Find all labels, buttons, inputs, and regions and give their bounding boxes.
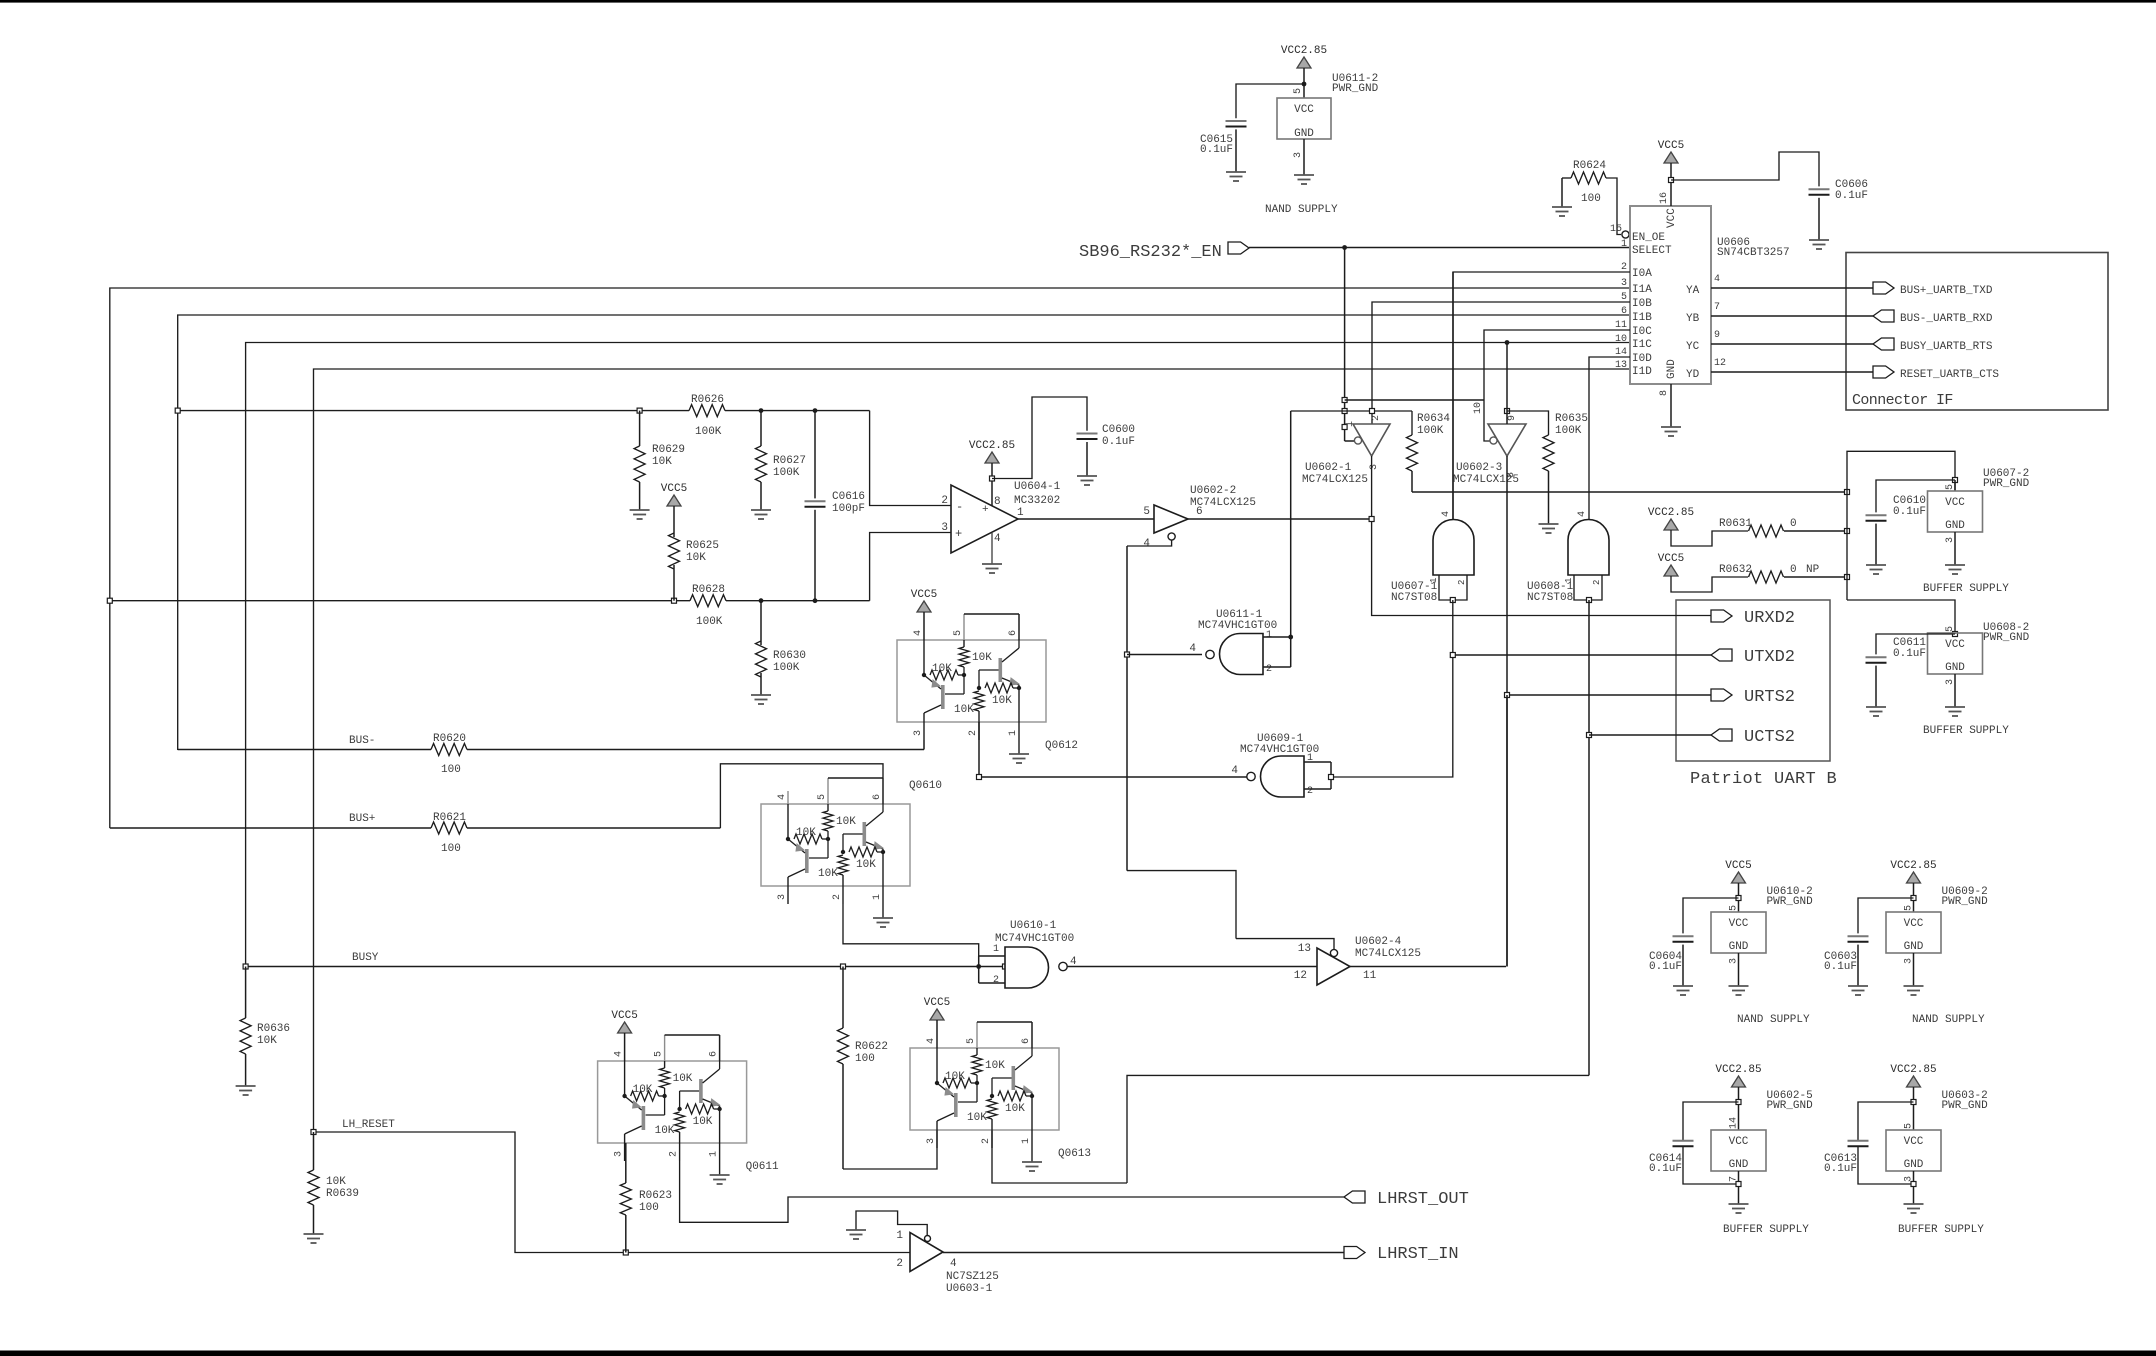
svg-text:BUSY_UARTB_RTS: BUSY_UARTB_RTS [1900, 341, 1993, 353]
resistor R0636 [240, 967, 290, 1087]
wire U0611-1 input [1127, 654, 1202, 656]
svg-text:2: 2 [1266, 664, 1272, 675]
wire op-amp pin2 [870, 411, 951, 506]
junction square Q0612 pin2 [977, 775, 982, 780]
svg-text:U0602-1: U0602-1 [1305, 462, 1352, 474]
label U0609-1 [1240, 733, 1319, 756]
connector URXD2 [1711, 609, 1795, 628]
svg-text:GND: GND [1729, 1159, 1749, 1171]
svg-text:3: 3 [1621, 278, 1627, 289]
connector BUS-_UARTB_RXD [1873, 310, 1993, 325]
wire U0608-1 input bracket [1574, 575, 1602, 600]
svg-text:MC74LCX125: MC74LCX125 [1190, 497, 1256, 509]
transistor pair Q0612 (with internal 10K resistors) [897, 589, 1078, 763]
wire LH_RESET [314, 1132, 911, 1253]
svg-text:11: 11 [1363, 970, 1377, 982]
power VCC5 (U0606) [1658, 140, 1684, 163]
svg-text:R0632: R0632 [1719, 564, 1752, 576]
bubble U0610-1 [1059, 962, 1067, 970]
svg-text:10K: 10K [967, 1112, 987, 1124]
label U0611-2 [1332, 73, 1379, 95]
IC U0606 right pin numbers [1714, 274, 1726, 369]
svg-text:4: 4 [926, 1038, 937, 1044]
wire BUSY [246, 966, 1005, 968]
resistor R0625 [669, 506, 720, 601]
svg-text:3: 3 [614, 1151, 625, 1157]
svg-text:RESET_UARTB_CTS: RESET_UARTB_CTS [1900, 369, 1999, 381]
svg-text:VCC: VCC [1904, 918, 1924, 930]
NAND gate U0610-1 [993, 944, 1077, 988]
svg-text:0.1uF: 0.1uF [1893, 506, 1926, 518]
junction square U0607-2 pin5 [1953, 478, 1958, 483]
junction square U0602-3 pin9 [1505, 409, 1510, 414]
svg-text:R0630: R0630 [773, 650, 806, 662]
svg-text:12: 12 [1294, 970, 1307, 982]
wire U0602-3 pin9/out vertical [1506, 343, 1508, 967]
box Patriot UART B [1676, 600, 1830, 761]
junction square R0623 bottom [623, 1250, 628, 1255]
wire BUS- to Q0612 pin3 [923, 740, 925, 750]
svg-text:100: 100 [855, 1053, 875, 1065]
svg-text:GND: GND [1294, 128, 1314, 140]
svg-text:PWR_GND: PWR_GND [1942, 896, 1989, 908]
wire SELECT [1249, 247, 1630, 249]
svg-text:NP: NP [1806, 564, 1820, 576]
connector LHRST_IN [1344, 1245, 1459, 1264]
svg-text:0.1uF: 0.1uF [1649, 961, 1682, 973]
svg-text:0.1uF: 0.1uF [1649, 1163, 1682, 1175]
svg-text:10K: 10K [796, 827, 816, 839]
svg-text:NC7ST08: NC7ST08 [1527, 592, 1573, 604]
svg-text:10K: 10K [673, 1073, 693, 1085]
svg-text:100: 100 [639, 1202, 659, 1214]
svg-text:VCC5: VCC5 [911, 589, 937, 601]
svg-text:5: 5 [966, 1038, 977, 1044]
svg-text:5: 5 [1904, 1123, 1915, 1129]
wire URTS2 [1507, 694, 1711, 696]
junction square UTXD2 tap [1450, 653, 1455, 658]
power VCC5 (R0625) [661, 483, 687, 506]
IC U0606 pin16 number [1659, 192, 1670, 204]
svg-text:I0A: I0A [1632, 268, 1652, 280]
wire U0611-1 out bracket [1263, 637, 1291, 667]
label NAND SUPPLY top [1265, 204, 1338, 216]
svg-text:100K: 100K [1555, 425, 1582, 437]
svg-text:VCC2.85: VCC2.85 [1890, 860, 1936, 872]
svg-text:VCC5: VCC5 [611, 1010, 637, 1022]
junction square buffer-supply [1845, 490, 1850, 495]
resistor R0634 [1407, 411, 1451, 492]
svg-text:10K: 10K [932, 663, 952, 675]
svg-text:R0621: R0621 [433, 812, 466, 824]
svg-text:1: 1 [709, 1151, 720, 1157]
svg-text:0.1uF: 0.1uF [1824, 1163, 1857, 1175]
supply block U0609-2 with C0603 capacitor + VCC2.85 [1824, 860, 1988, 1026]
svg-text:2: 2 [968, 730, 979, 736]
wire enable to U0602-1 bubble [1345, 440, 1354, 442]
wire R0631 left [1671, 530, 1748, 546]
svg-text:6: 6 [872, 794, 883, 800]
svg-text:10: 10 [1473, 402, 1484, 414]
ground R0635 [1539, 524, 1559, 533]
wire node R0628 row [110, 600, 870, 602]
border bar top [0, 0, 2156, 3]
svg-text:BUSY: BUSY [352, 952, 379, 964]
label U0611-1 [1198, 609, 1277, 632]
wire node R0626 row [178, 410, 870, 412]
svg-text:5: 5 [1729, 905, 1740, 911]
svg-text:Patriot UART B: Patriot UART B [1690, 770, 1837, 789]
wire VCC2.85 to op-amp pin8 [991, 463, 993, 506]
supply block U0607-2 with C0610 capacitor [1866, 468, 2030, 595]
svg-text:GND: GND [1904, 1159, 1924, 1171]
svg-text:VCC: VCC [1945, 639, 1965, 651]
svg-text:BUFFER SUPPLY: BUFFER SUPPLY [1923, 583, 2009, 595]
svg-text:R0628: R0628 [692, 584, 725, 596]
svg-text:3: 3 [941, 522, 948, 534]
svg-text:4: 4 [950, 1258, 957, 1270]
svg-text:VCC: VCC [1729, 1136, 1749, 1148]
net label SB96_RS232*_EN [1079, 243, 1222, 262]
bubble U0602-4 en [1330, 949, 1337, 956]
wire C0600 feed [992, 397, 1087, 479]
resistor R0620 [431, 733, 467, 776]
ground R0630 [751, 695, 771, 704]
wire Q0611 pin2 to LHRST_OUT [680, 1161, 1344, 1222]
svg-text:I1C: I1C [1632, 339, 1652, 351]
svg-text:+: + [955, 527, 962, 541]
label Patriot UART B [1690, 770, 1837, 789]
label U0606 [1717, 237, 1790, 259]
svg-text:U0602-4: U0602-4 [1355, 936, 1402, 948]
svg-text:10K: 10K [985, 1060, 1005, 1072]
svg-text:I1D: I1D [1632, 366, 1652, 378]
bubble U0602-2 enable [1168, 533, 1175, 540]
junction square R0631 [1845, 529, 1850, 534]
IC U0606 pin8 number [1659, 390, 1670, 396]
label U0602-2 [1190, 485, 1256, 509]
svg-text:I0C: I0C [1632, 326, 1652, 338]
svg-text:1: 1 [1008, 730, 1019, 736]
power VCC2.85 (R0631) [1648, 507, 1694, 530]
buffer U0602-1 [1345, 415, 1390, 470]
svg-text:4: 4 [1714, 274, 1720, 285]
connector BUS+_UARTB_TXD [1873, 282, 1993, 297]
resistor R0623 [620, 1143, 672, 1253]
svg-text:10K: 10K [633, 1084, 653, 1096]
resistor R0626 [689, 394, 725, 438]
svg-text:YC: YC [1686, 341, 1700, 353]
wire net I1B (left loop) [178, 315, 1630, 750]
svg-text:100K: 100K [696, 616, 723, 628]
svg-text:C0600: C0600 [1102, 424, 1135, 436]
svg-text:VCC2.85: VCC2.85 [969, 440, 1015, 452]
svg-text:12: 12 [1714, 358, 1726, 369]
svg-text:5: 5 [1945, 626, 1956, 632]
svg-text:13: 13 [1298, 943, 1311, 955]
svg-text:Connector IF: Connector IF [1852, 392, 1953, 409]
svg-text:BUFFER SUPPLY: BUFFER SUPPLY [1898, 1224, 1984, 1236]
junction square R0629 node [637, 408, 642, 413]
wire UCTS2 chain row [1127, 1075, 1589, 1183]
svg-text:UTXD2: UTXD2 [1744, 648, 1795, 667]
svg-text:1: 1 [872, 894, 883, 900]
label U0608-1 [1527, 581, 1574, 604]
capacitor C0615 [1200, 121, 1247, 172]
wire UCTS2 [1589, 734, 1711, 736]
junction square LH_RESET left [311, 1130, 316, 1135]
svg-text:YA: YA [1686, 285, 1700, 297]
net label BUSY [352, 952, 379, 964]
svg-text:MC74LCX125: MC74LCX125 [1453, 474, 1519, 486]
wire U0602-4 out [1350, 966, 1506, 968]
svg-text:2: 2 [669, 1151, 680, 1157]
label U0602-4 [1355, 936, 1421, 960]
svg-text:MC74VHC1GT00: MC74VHC1GT00 [1240, 744, 1319, 756]
svg-text:1: 1 [896, 1230, 903, 1242]
svg-text:UCTS2: UCTS2 [1744, 728, 1795, 747]
svg-text:Q0611: Q0611 [746, 1161, 779, 1173]
svg-text:MC33202: MC33202 [1014, 495, 1060, 507]
svg-text:VCC: VCC [1294, 104, 1314, 116]
svg-text:10K: 10K [836, 816, 856, 828]
capacitor C0616 [805, 411, 866, 601]
ground R0624 [1552, 207, 1572, 216]
svg-text:NAND SUPPLY: NAND SUPPLY [1265, 204, 1338, 216]
wire BUS+ to Q0610 pin6 [720, 764, 883, 828]
junction square R0632 [1845, 575, 1850, 580]
svg-text:BUS-: BUS- [349, 735, 375, 747]
svg-text:0: 0 [1790, 564, 1797, 576]
junction dot C0616 node [813, 408, 818, 413]
bubble U0606 EN_OE [1622, 231, 1629, 238]
wire en branch A [1345, 399, 1484, 401]
svg-text:BUS-_UARTB_RXD: BUS-_UARTB_RXD [1900, 313, 1993, 325]
svg-text:1: 1 [993, 944, 999, 955]
svg-text:6: 6 [1008, 630, 1019, 636]
wire R0632 left [1671, 576, 1748, 592]
wire UTXD2 net [1331, 600, 1711, 777]
power VCC2.85 (U0611-2) [1281, 45, 1327, 68]
ground C0600 [1077, 476, 1097, 485]
svg-text:9: 9 [1507, 415, 1518, 421]
ground R0636 [236, 1086, 256, 1095]
wire U0610-1 in bracket [979, 956, 1005, 983]
wire U0609-1 out bracket [1304, 762, 1331, 789]
junction square en C [1342, 425, 1347, 430]
IC U0606 pin texts [1632, 208, 1700, 381]
svg-text:SN74CBT3257: SN74CBT3257 [1717, 247, 1790, 259]
transistor pair Q0611 (with internal 10K resistors) [598, 1010, 779, 1184]
junction dot R0627 node [759, 408, 764, 413]
block U0611-2 PWR_GND [1277, 88, 1331, 158]
svg-text:R0620: R0620 [433, 733, 466, 745]
supply block U0610-2 with C0604 capacitor + VCC5 [1649, 860, 1813, 1026]
bubble U0611-1 [1206, 650, 1214, 658]
svg-text:NAND SUPPLY: NAND SUPPLY [1737, 1014, 1810, 1026]
junction dot I1C tap [1505, 340, 1510, 345]
ground U0606 [1661, 427, 1681, 436]
svg-text:BUS+_UARTB_TXD: BUS+_UARTB_TXD [1900, 285, 1993, 297]
resistor R0639 [308, 1132, 359, 1234]
svg-text:PWR_GND: PWR_GND [1983, 632, 2030, 644]
svg-text:VCC2.85: VCC2.85 [1715, 1064, 1761, 1076]
svg-text:U0610-1: U0610-1 [1010, 920, 1057, 932]
svg-text:10K: 10K [818, 868, 838, 880]
svg-text:MC74VHC1GT00: MC74VHC1GT00 [1198, 620, 1277, 632]
svg-text:LH_RESET: LH_RESET [342, 1119, 395, 1131]
svg-text:100: 100 [441, 764, 461, 776]
wire VCC2.85 to U0611-2 [1303, 68, 1305, 98]
wire U0602-4 enable [1236, 939, 1334, 949]
transistor pair Q0610 (with internal 10K resistors) [761, 778, 942, 927]
svg-text:PWR_GND: PWR_GND [1767, 1100, 1814, 1112]
connector LHRST_OUT [1344, 1190, 1469, 1209]
svg-text:2: 2 [832, 894, 843, 900]
junction dot R0630 node [759, 598, 764, 603]
svg-text:4: 4 [614, 1051, 625, 1057]
svg-text:VCC5: VCC5 [1658, 553, 1684, 565]
svg-text:R0625: R0625 [686, 540, 719, 552]
svg-text:GND: GND [1945, 662, 1965, 674]
label U0603-1 [946, 1271, 999, 1295]
svg-text:1: 1 [1021, 1138, 1032, 1144]
svg-text:2: 2 [941, 495, 948, 507]
resistor R0635 [1507, 411, 1588, 524]
svg-text:BUFFER SUPPLY: BUFFER SUPPLY [1923, 725, 2009, 737]
resistor R0624 [1562, 160, 1621, 235]
wire U0610-1 out [1067, 966, 1317, 968]
resistor R0632 [1719, 564, 1847, 583]
supply block U0602-5 with C0614 capacitor + VCC2.85 [1649, 1064, 1813, 1236]
svg-text:VCC5: VCC5 [924, 997, 950, 1009]
svg-text:I0B: I0B [1632, 298, 1652, 310]
junction dot C0616 bottom node [813, 598, 818, 603]
box Connector IF [1846, 253, 2108, 411]
svg-text:U0602-3: U0602-3 [1456, 462, 1502, 474]
bubble U0602-1 enable [1354, 437, 1361, 444]
wire U0606 pin8 gnd [1670, 384, 1672, 427]
svg-text:PWR_GND: PWR_GND [1983, 478, 2030, 490]
svg-text:4: 4 [1577, 511, 1588, 517]
svg-text:2: 2 [896, 1258, 903, 1270]
AND gate U0608-1 [1564, 511, 1609, 585]
svg-text:2: 2 [1457, 580, 1467, 585]
svg-text:100pF: 100pF [832, 503, 865, 515]
svg-text:2: 2 [1592, 580, 1602, 585]
svg-text:6: 6 [1621, 306, 1627, 317]
wire BUS- [178, 749, 924, 751]
resistor R0629 [634, 411, 685, 510]
svg-text:NC7SZ125: NC7SZ125 [946, 1271, 999, 1283]
svg-text:4: 4 [1231, 765, 1238, 777]
power VCC2.85 (U0604-1) [969, 440, 1015, 463]
wire I0C feed [1484, 330, 1630, 441]
ground U0603-1 pin1 [846, 1230, 866, 1239]
junction square UCTS2 tap [1587, 733, 1592, 738]
svg-text:MC74VHC1GT00: MC74VHC1GT00 [995, 933, 1074, 945]
svg-text:U0602-2: U0602-2 [1190, 485, 1236, 497]
svg-text:Q0610: Q0610 [909, 780, 942, 792]
NAND gate U0609-1 [1231, 753, 1313, 797]
svg-text:URTS2: URTS2 [1744, 688, 1795, 707]
svg-text:10K: 10K [945, 1071, 965, 1083]
svg-text:+: + [982, 504, 989, 516]
svg-text:100K: 100K [773, 467, 800, 479]
junction square op-amp pin8 [990, 476, 995, 481]
wire enable vertical [1344, 248, 1346, 442]
svg-text:10K: 10K [686, 552, 706, 564]
ground U0611-2 [1294, 175, 1314, 184]
svg-text:5: 5 [953, 630, 964, 636]
resistor R0630 [756, 601, 807, 695]
svg-text:1: 1 [1017, 507, 1024, 519]
IC U0606 box [1630, 206, 1711, 384]
svg-text:0.1uF: 0.1uF [1200, 144, 1233, 156]
svg-text:16: 16 [1659, 192, 1670, 204]
svg-text:MC74LCX125: MC74LCX125 [1355, 948, 1421, 960]
svg-text:VCC: VCC [1904, 1136, 1924, 1148]
wire net I1C (left loop) [246, 343, 1630, 967]
wire net I1D (left loop) [314, 369, 1631, 1132]
svg-text:4: 4 [1441, 511, 1452, 517]
svg-text:SELECT: SELECT [1632, 245, 1672, 257]
wire LHRST_IN [943, 1252, 1344, 1254]
svg-text:BUFFER SUPPLY: BUFFER SUPPLY [1723, 1224, 1809, 1236]
connector BUSY_UARTB_RTS [1873, 338, 1993, 353]
wire BUS+ [110, 827, 721, 829]
svg-text:10K: 10K [655, 1125, 675, 1137]
svg-text:2: 2 [993, 975, 999, 986]
wire enable chain to U0602-4 [1127, 871, 1236, 939]
junction square I1A tap [107, 598, 112, 603]
svg-text:10K: 10K [954, 704, 974, 716]
svg-text:R0631: R0631 [1719, 518, 1752, 530]
ground C0606 [1809, 240, 1829, 249]
svg-text:LHRST_IN: LHRST_IN [1377, 1245, 1459, 1264]
svg-text:4: 4 [1189, 643, 1196, 655]
wire I0B feed [1372, 302, 1630, 424]
ground C0615 [1226, 172, 1246, 181]
wire VCC5 to C0606 [1671, 152, 1819, 186]
svg-text:GND: GND [1945, 520, 1965, 532]
svg-text:15: 15 [1610, 224, 1622, 235]
wire I0D feed [1589, 357, 1630, 519]
svg-text:GND: GND [1666, 359, 1678, 379]
svg-text:U0603-1: U0603-1 [946, 1283, 993, 1295]
junction square en A [1342, 398, 1347, 403]
svg-text:VCC2.85: VCC2.85 [1281, 45, 1327, 57]
svg-text:5: 5 [1293, 88, 1304, 94]
svg-text:0.1uF: 0.1uF [1824, 961, 1857, 973]
wire Q0610 pin2 to U0610-1 [843, 904, 979, 956]
wire net I1A (left loop) [110, 288, 1630, 828]
op-amp U0604-1 [941, 485, 1024, 553]
svg-text:100: 100 [441, 843, 461, 855]
svg-text:URXD2: URXD2 [1744, 609, 1795, 628]
svg-text:VCC2.85: VCC2.85 [1648, 507, 1694, 519]
junction square U0609-1 out [1329, 775, 1334, 780]
power VCC5 (R0632) [1658, 553, 1684, 576]
svg-text:4: 4 [994, 533, 1001, 545]
svg-text:6: 6 [709, 1051, 720, 1057]
NAND gate U0611-1 [1189, 630, 1272, 675]
junction dot U0611-1 out [1288, 635, 1293, 640]
junction dot SELECT tap [1342, 245, 1347, 250]
svg-text:6: 6 [1021, 1038, 1032, 1044]
buffer U0603-1 NC7SZ125 [896, 1230, 957, 1272]
svg-text:5: 5 [817, 794, 828, 800]
